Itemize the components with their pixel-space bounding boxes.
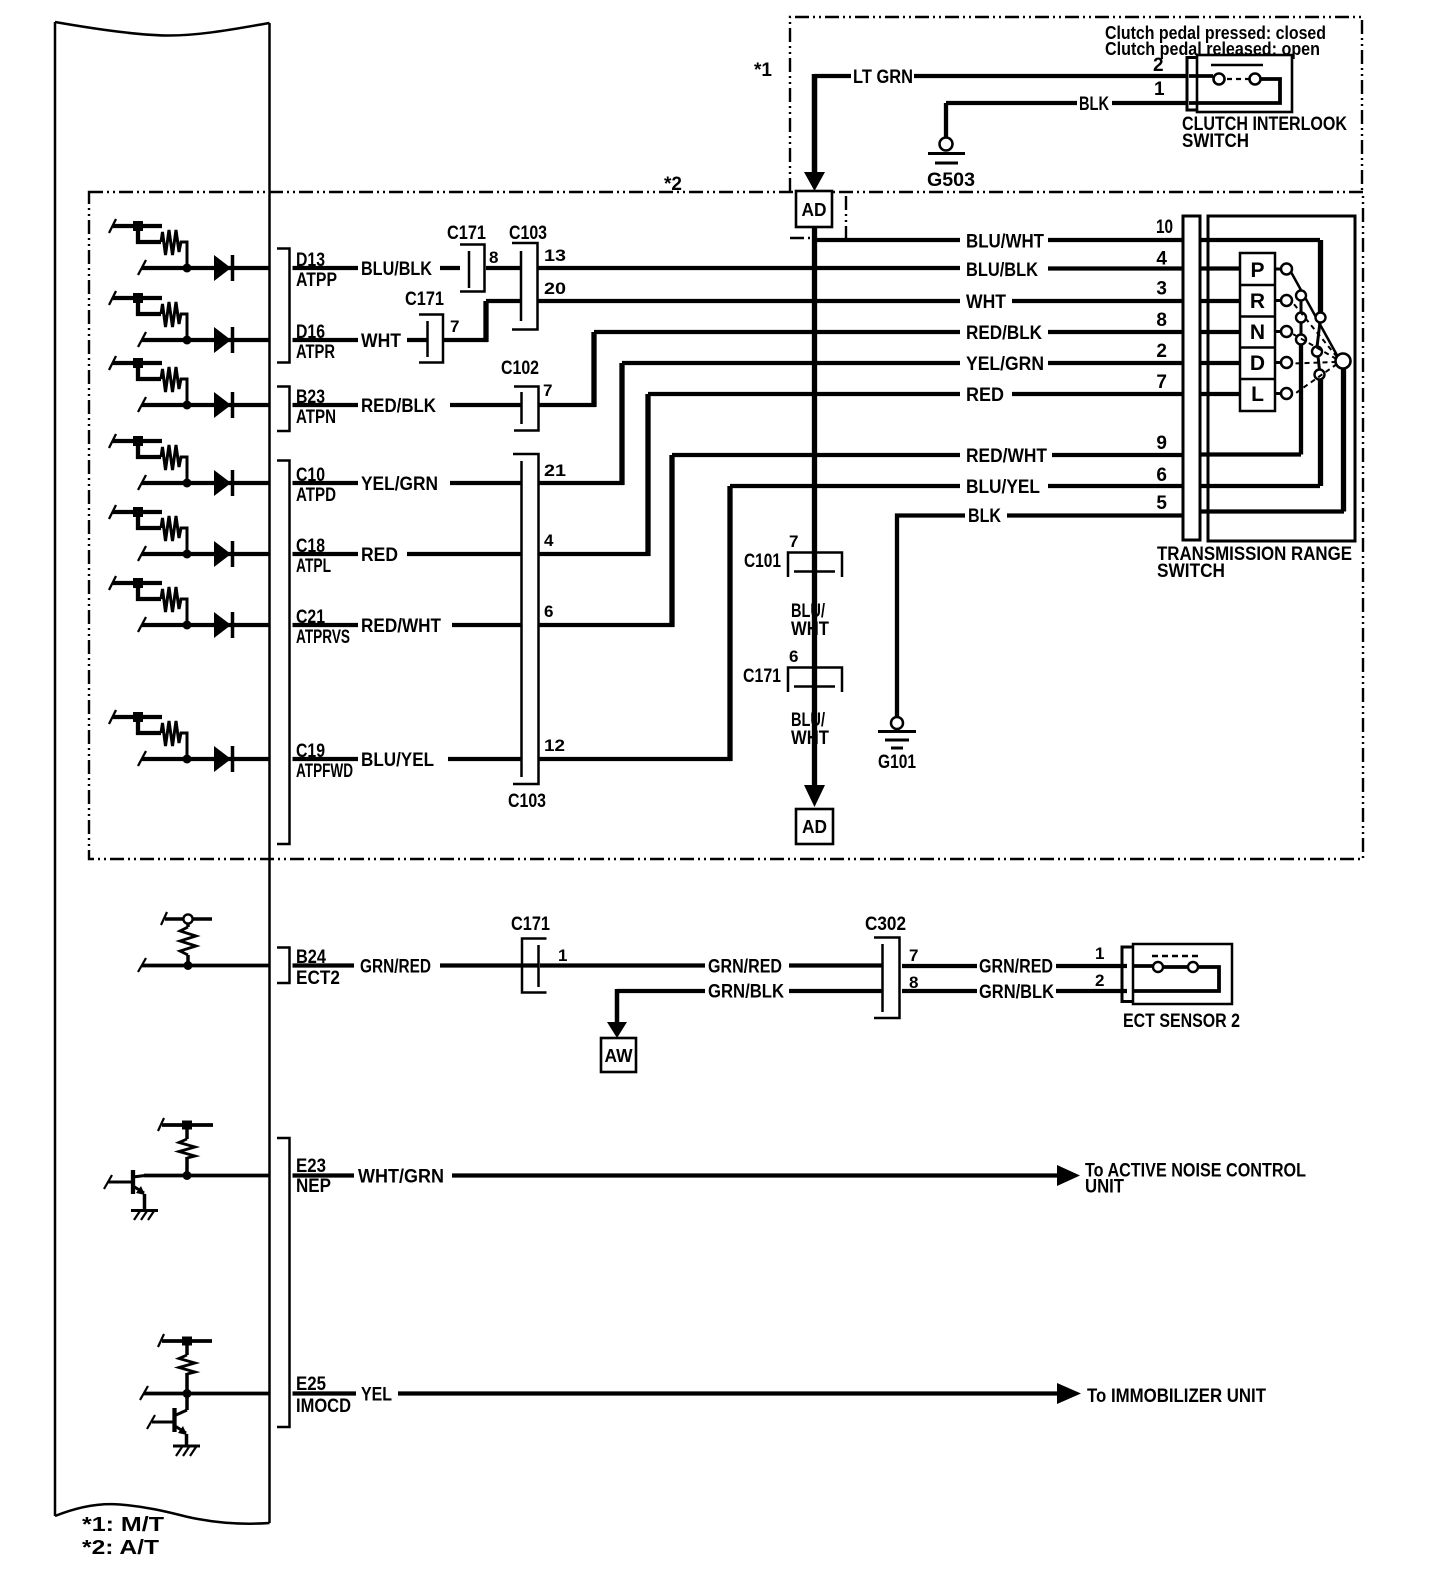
connector bar of range switch (1183, 216, 1200, 540)
svg-text:SWITCH: SWITCH (1157, 561, 1225, 582)
pin label B24/ECT2 (293, 963, 355, 967)
svg-text:7: 7 (909, 946, 918, 965)
svg-text:To IMMOBILIZER UNIT: To IMMOBILIZER UNIT (1087, 1386, 1266, 1407)
connector bracket group C (277, 461, 290, 845)
cell C19/ATPFWD (109, 710, 269, 772)
position circles (1296, 291, 1306, 301)
terminal stubs (1275, 269, 1281, 394)
common pivot circle (1336, 354, 1351, 369)
connector AW box (601, 1038, 636, 1072)
wire pin1 inside switch (1189, 79, 1280, 103)
svg-text:AD: AD (802, 200, 827, 220)
svg-text:GRN/BLK: GRN/BLK (979, 982, 1054, 1003)
selector diagonal segment (1317, 322, 1320, 370)
svg-text:6: 6 (544, 602, 553, 621)
pin label D13/ATPP (293, 266, 359, 270)
svg-text:RED/BLK: RED/BLK (966, 323, 1042, 344)
ground (E25 emitter) (173, 1445, 200, 1448)
wire BLU/WHT row from trunk (814, 238, 1183, 242)
connector C101 pin 7 on trunk (788, 553, 842, 578)
cell D16/ATPR (109, 291, 269, 353)
wire pin6 drop (1318, 379, 1323, 486)
svg-text:2: 2 (1156, 341, 1167, 362)
svg-text:2: 2 (1153, 55, 1164, 76)
svg-text:ATPD: ATPD (296, 485, 336, 506)
pin label C10/ATPD (293, 481, 359, 485)
wire RED row segments (407, 394, 1183, 554)
svg-text:BLU/WHT: BLU/WHT (966, 232, 1044, 253)
svg-text:WHT: WHT (966, 292, 1006, 313)
*1 box bottom notch around AD (790, 192, 846, 240)
cell D13/ATPP (109, 219, 269, 281)
svg-text:7: 7 (1156, 372, 1167, 393)
wire BLK drop to ground (944, 103, 948, 137)
svg-text:D13: D13 (296, 250, 325, 271)
svg-text:WHT/GRN: WHT/GRN (358, 1167, 444, 1188)
connector bracket group D (277, 249, 290, 363)
pin label E23/NEP (293, 1173, 355, 1177)
svg-text:G101: G101 (878, 752, 916, 773)
pin label C21/ATPRVS (293, 623, 359, 627)
wire pin2 inside switch (1189, 74, 1213, 78)
svg-text:D: D (1250, 352, 1265, 375)
wire pin10 drop (1318, 240, 1323, 313)
riser BLU/YEL to pin 6 (727, 486, 732, 761)
svg-text:1: 1 (558, 946, 567, 965)
ground G503 (940, 138, 953, 151)
ECM torn strip left edge (54, 22, 57, 1516)
svg-text:RED/WHT: RED/WHT (966, 446, 1047, 467)
riser WHT to pin 20 (483, 301, 488, 342)
svg-text:IMOCD: IMOCD (296, 1396, 351, 1417)
riser RED/WHT to pin 9 (669, 455, 674, 627)
svg-text:BLU/BLK: BLU/BLK (361, 259, 432, 280)
svg-text:ATPFWD: ATPFWD (296, 761, 353, 782)
svg-text:1: 1 (1154, 79, 1165, 100)
svg-text:C18: C18 (296, 536, 325, 557)
svg-text:5: 5 (1156, 493, 1167, 514)
PRNDL gate box (1240, 253, 1275, 411)
pin label C19/ATPFWD (293, 757, 359, 761)
svg-text:UNIT: UNIT (1085, 1177, 1124, 1198)
terminal circles P R N D L (1281, 264, 1292, 275)
svg-text:C103: C103 (509, 223, 547, 244)
ECT sensor 2 box (1133, 944, 1232, 1004)
pin label B23/ATPN (293, 403, 359, 407)
svg-text:3: 3 (1156, 279, 1167, 300)
svg-text:12: 12 (544, 736, 565, 755)
svg-text:10: 10 (1156, 217, 1173, 238)
wire GRN/BLK with arrow to AW (617, 989, 1127, 993)
dash-dot box *1 (M/T section) (790, 17, 1362, 192)
ground G101 (891, 717, 903, 729)
connector bracket group E (277, 1138, 290, 1427)
svg-text:13: 13 (544, 246, 566, 265)
wire arrow down to AD (812, 74, 818, 173)
connector C171 pin 6 on trunk (788, 668, 842, 693)
svg-text:NEP: NEP (296, 1176, 331, 1197)
wire B24 row (142, 964, 269, 968)
svg-text:2: 2 (1095, 971, 1104, 990)
dashed contact gap (1227, 78, 1249, 80)
svg-text:YEL/GRN: YEL/GRN (966, 354, 1044, 375)
svg-text:C171: C171 (743, 666, 781, 687)
riser YEL/GRN to pin 2 (619, 363, 624, 485)
svg-text:*2: *2 (664, 174, 682, 195)
svg-text:RED: RED (361, 545, 398, 566)
svg-text:ECT SENSOR 2: ECT SENSOR 2 (1123, 1011, 1240, 1032)
cell E23 resistor (162, 1123, 213, 1127)
svg-text:ATPL: ATPL (296, 556, 331, 577)
svg-text:AD: AD (802, 817, 827, 837)
sensor terminals (1153, 962, 1163, 972)
svg-text:6: 6 (1156, 465, 1167, 486)
switch blade line (1211, 64, 1263, 67)
pin label D16/ATPR (293, 338, 359, 342)
connector bracket B23 (277, 387, 290, 432)
svg-text:BLK: BLK (1079, 94, 1109, 115)
svg-text:GRN/BLK: GRN/BLK (708, 982, 784, 1003)
wire E25 to immobilizer (398, 1391, 1058, 1395)
svg-text:C101: C101 (744, 551, 781, 572)
svg-text:BLU/BLK: BLU/BLK (966, 260, 1038, 281)
svg-text:21: 21 (544, 461, 566, 480)
transistor Q (IMOCD) (185, 1393, 189, 1410)
cell C10/ATPD (109, 434, 269, 496)
svg-text:RED/WHT: RED/WHT (361, 616, 441, 637)
svg-text:C302: C302 (865, 914, 906, 935)
svg-text:WHT: WHT (791, 619, 829, 640)
connector AD box (bottom) (796, 809, 833, 844)
svg-text:9: 9 (1156, 433, 1167, 454)
svg-text:BLK: BLK (968, 506, 1001, 527)
svg-text:P: P (1250, 259, 1264, 282)
svg-text:C10: C10 (296, 465, 325, 486)
wire pin9 drop (1299, 344, 1303, 455)
svg-text:C19: C19 (296, 741, 325, 762)
wire LT GRN horizontal (814, 74, 1186, 78)
clutch interlock switch box (1197, 55, 1292, 112)
svg-text:D16: D16 (296, 322, 325, 343)
wire GRN/RED segments (440, 963, 1127, 968)
wire BLU/BLK row segments (440, 266, 1183, 271)
svg-text:8: 8 (909, 973, 918, 992)
riser RED/BLK to pin 8 (591, 332, 596, 407)
svg-text:YEL/GRN: YEL/GRN (361, 474, 438, 495)
svg-text:C103: C103 (508, 791, 546, 812)
selector solid line P to common (1291, 272, 1338, 357)
svg-text:1: 1 (1095, 944, 1104, 963)
svg-text:GRN/RED: GRN/RED (360, 957, 431, 978)
svg-text:RED/BLK: RED/BLK (361, 396, 436, 417)
svg-text:YEL: YEL (361, 1385, 392, 1406)
svg-text:C171: C171 (447, 223, 486, 244)
svg-text:WHT: WHT (791, 728, 829, 749)
svg-text:ATPN: ATPN (296, 407, 336, 428)
svg-text:7: 7 (789, 532, 798, 551)
cell B24 pull-up resistor (165, 917, 212, 921)
cell C21/ATPRVS (109, 576, 269, 638)
wire BLK row to ground (897, 516, 1183, 718)
sensor internal wires (1133, 966, 1219, 991)
transmission range switch box (1208, 216, 1355, 541)
transistor Q (NEP) (131, 1170, 135, 1194)
svg-text:BLU/YEL: BLU/YEL (966, 477, 1040, 498)
trunk wire down from AD (812, 227, 817, 786)
ECM torn strip bottom wavy edge (55, 1504, 270, 1524)
svg-text:C171: C171 (405, 289, 444, 310)
wires into switch rows (1200, 240, 1344, 512)
svg-text:LT GRN: LT GRN (853, 67, 913, 88)
svg-text:B23: B23 (296, 387, 325, 408)
svg-text:ATPRVS: ATPRVS (296, 627, 350, 648)
switch contact terminals (1214, 74, 1225, 85)
connector AD box (top) (796, 191, 832, 227)
wire pin5 drop from common (1341, 367, 1346, 512)
svg-text:G503: G503 (927, 170, 975, 191)
svg-text:R: R (1250, 290, 1265, 313)
sensor dashed element (1152, 955, 1199, 957)
svg-text:ATPP: ATPP (296, 270, 337, 291)
svg-text:C171: C171 (511, 914, 550, 935)
svg-text:BLU/YEL: BLU/YEL (361, 750, 434, 771)
svg-text:8: 8 (1156, 310, 1167, 331)
svg-text:E23: E23 (296, 1156, 326, 1177)
svg-text:6: 6 (789, 647, 798, 666)
cell E25 resistor (162, 1339, 212, 1343)
svg-text:4: 4 (544, 531, 554, 550)
dashed selector rays (1293, 303, 1337, 357)
dash-dot box *2 (A/T section) (89, 192, 1363, 859)
wire BLU/YEL row segments (448, 486, 1183, 759)
ECM torn strip top wavy edge (55, 22, 270, 36)
ground (E23 emitter) (131, 1209, 158, 1212)
svg-text:*2: A/T: *2: A/T (82, 1537, 159, 1559)
connector bracket ECT sensor (1122, 947, 1132, 1002)
wire E23 to active noise control (452, 1173, 1058, 1177)
svg-text:C102: C102 (501, 358, 539, 379)
svg-text:*1: M/T: *1: M/T (82, 1514, 164, 1536)
wire WHT row segments (407, 301, 1183, 340)
wire RED/BLK row segments (450, 332, 1183, 405)
svg-text:L: L (1251, 383, 1264, 406)
wire E23 row (144, 1174, 269, 1178)
svg-text:4: 4 (1156, 249, 1167, 270)
svg-text:E25: E25 (296, 1374, 326, 1395)
pin label E25/IMOCD (293, 1391, 357, 1395)
svg-text:B24: B24 (296, 947, 326, 968)
ECM torn strip right edge (268, 23, 271, 1523)
svg-text:AW: AW (605, 1046, 633, 1066)
wire E25 row (144, 1392, 269, 1396)
svg-text:WHT: WHT (361, 331, 401, 352)
svg-text:ECT2: ECT2 (296, 968, 340, 989)
svg-text:*1: *1 (754, 60, 772, 81)
cell B23/ATPN (109, 356, 269, 418)
svg-text:N: N (1250, 321, 1265, 344)
svg-text:7: 7 (450, 317, 459, 336)
svg-text:GRN/RED: GRN/RED (979, 957, 1053, 978)
selector column line (1300, 296, 1303, 340)
svg-text:GRN/RED: GRN/RED (708, 957, 782, 978)
svg-text:SWITCH: SWITCH (1182, 131, 1249, 152)
svg-text:C21: C21 (296, 607, 325, 628)
svg-text:20: 20 (544, 279, 566, 298)
riser RED to pin 7 (645, 394, 650, 556)
wire RED/WHT row segments (452, 455, 1183, 625)
wire YEL/GRN row segments (450, 363, 1183, 483)
svg-text:ATPR: ATPR (296, 342, 335, 363)
wire BLK horizontal (946, 101, 1186, 105)
connector bracket B24 (277, 948, 290, 984)
svg-text:RED: RED (966, 385, 1004, 406)
svg-text:7: 7 (543, 381, 552, 400)
connector bracket clutch switch (1187, 58, 1197, 111)
pin label C18/ATPL (293, 552, 359, 556)
cell C18/ATPL (109, 505, 269, 567)
svg-text:8: 8 (489, 248, 498, 267)
connector C103 lower pins 21/4/6/12 (513, 454, 539, 784)
